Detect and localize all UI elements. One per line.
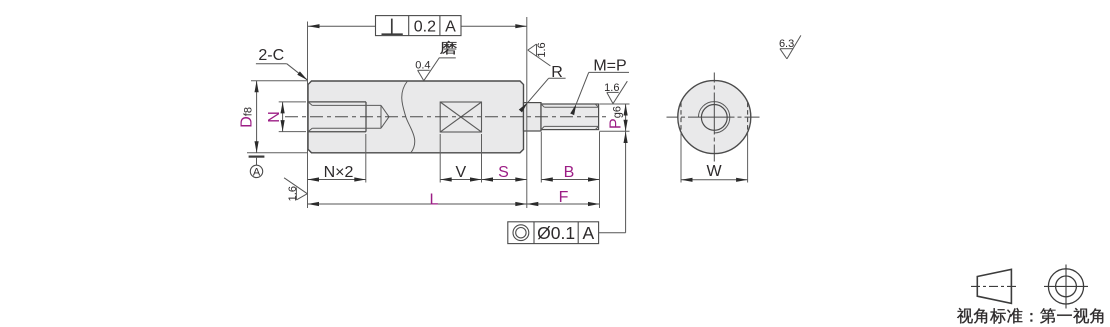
svg-text:N×2: N×2 (324, 164, 354, 181)
main body outline (side view) (308, 81, 524, 153)
extension line W left (680, 133, 682, 183)
dimension N (266, 102, 285, 132)
dimension L (308, 191, 527, 208)
roughness 1.6 on stud thread (604, 81, 627, 103)
svg-text:A: A (253, 167, 261, 179)
projection symbol inner circle (1056, 276, 1077, 297)
flat surface box with cross (440, 102, 481, 132)
first angle projection frustum (977, 269, 1011, 303)
dimension P g6 (608, 104, 628, 131)
label M=P with leader (570, 57, 629, 115)
centerline of side view (285, 116, 608, 118)
label 2-C chamfer with leader (256, 47, 309, 82)
extension line left face (307, 22, 309, 209)
end view outer circle (678, 81, 751, 154)
svg-text:S: S (498, 164, 509, 181)
caption char 角 (1090, 308, 1103, 323)
break wave line (402, 81, 415, 153)
projection symbol outer circle (1048, 269, 1083, 304)
dimension D f8 (239, 81, 259, 153)
svg-text:B: B (564, 164, 575, 181)
roughness 1.6 on right face (528, 42, 551, 66)
datum A symbol (249, 157, 265, 179)
svg-text:W: W (706, 163, 722, 180)
svg-text:Df8: Df8 (239, 107, 256, 128)
svg-text:A: A (583, 223, 595, 243)
svg-text:Pg6: Pg6 (608, 106, 625, 129)
svg-text:F: F (559, 189, 569, 206)
svg-text:N: N (266, 111, 283, 123)
extension line body top (251, 80, 307, 82)
svg-text:1.6: 1.6 (287, 186, 299, 201)
extension line flat left (439, 134, 441, 183)
caption char 标 (990, 308, 1006, 323)
top overall dimension with perpendicularity frame (308, 16, 527, 36)
stud thread body (541, 104, 599, 130)
roughness 1.6 on left face (284, 178, 307, 202)
svg-text:Ø0.1: Ø0.1 (537, 223, 575, 243)
svg-text:1.6: 1.6 (536, 42, 548, 57)
svg-text:0.4: 0.4 (415, 60, 430, 72)
caption first angle projection (957, 308, 1103, 324)
end view vertical centerline (713, 73, 715, 162)
caption char 视 (957, 308, 973, 324)
caption char 视 (1073, 308, 1089, 324)
grind character mo (440, 41, 457, 55)
extension line hole bottom (279, 131, 306, 133)
stud neck (524, 103, 542, 131)
caption char 第 (1040, 308, 1055, 323)
end view thread arc (698, 102, 729, 133)
svg-text:M=P: M=P (593, 57, 626, 74)
grind note (424, 41, 457, 81)
label R with leader (519, 64, 566, 112)
hidden flat edge left (680, 103, 682, 132)
caption char 一 (1057, 315, 1072, 316)
caption char 准 (1007, 308, 1022, 324)
extension line hole top (279, 101, 306, 103)
roughness 6.3 general mark (779, 35, 801, 59)
svg-text:0.2: 0.2 (414, 18, 436, 35)
end view hole circle (701, 105, 727, 131)
extension line body bottom (247, 152, 308, 154)
projection symbol vertical centerline (1065, 265, 1067, 309)
end view horizontal centerline (667, 116, 763, 118)
hidden flat edge right (747, 103, 749, 132)
extension line hole depth (365, 134, 367, 183)
caption char ： (1030, 313, 1032, 321)
extension line stud top (600, 103, 630, 105)
dimension S (482, 164, 527, 182)
concentricity feature control frame (508, 222, 599, 244)
roughness 0.4 (415, 60, 430, 81)
extension line W right (747, 133, 749, 183)
svg-text:V: V (455, 164, 466, 181)
dimension F (527, 189, 600, 206)
tapped hole chamfer and drill lines (308, 102, 389, 132)
dimension W (681, 163, 748, 182)
dimension B (541, 164, 599, 182)
projection symbol horizontal centerline (1044, 285, 1088, 287)
tapped hole thread major outline (308, 102, 366, 132)
extension line thread start (540, 132, 542, 183)
stud thread minor diameter lines and chamfers (541, 104, 599, 130)
dimension V (440, 164, 481, 182)
frustum centerline (971, 285, 1017, 287)
extension line stud bottom (600, 130, 630, 132)
concentricity leader (599, 132, 628, 233)
extension line flat right (481, 134, 483, 183)
svg-text:L: L (430, 191, 439, 208)
dimension N x 2 (308, 164, 366, 182)
caption char 角 (974, 308, 987, 323)
extension line right face (526, 17, 528, 208)
svg-text:2-C: 2-C (258, 47, 284, 64)
svg-text:A: A (445, 18, 456, 35)
extension line stud end (599, 132, 601, 209)
